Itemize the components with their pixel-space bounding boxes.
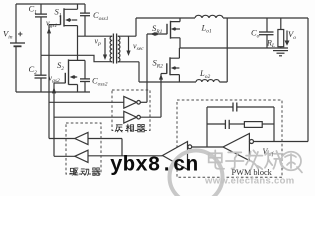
svg-text:vp: vp <box>95 37 102 48</box>
svg-text:Vo: Vo <box>288 29 296 41</box>
svg-text:Lo1: Lo1 <box>201 23 212 35</box>
svg-text:www.elecfans.com: www.elecfans.com <box>204 176 294 187</box>
svg-text:S1: S1 <box>55 7 62 19</box>
svg-text:Lo2: Lo2 <box>199 68 210 80</box>
svg-text:C1: C1 <box>29 4 38 16</box>
svg-text:ybx8.cn: ybx8.cn <box>110 155 198 178</box>
svg-text:Coss2: Coss2 <box>92 76 108 88</box>
svg-text:vsec: vsec <box>133 42 144 53</box>
svg-text:Coss1: Coss1 <box>93 10 109 22</box>
svg-text:Vin: Vin <box>3 29 13 41</box>
svg-text:S2: S2 <box>57 60 64 72</box>
svg-text:RL: RL <box>266 39 275 50</box>
svg-text:vgs1: vgs1 <box>46 19 57 30</box>
svg-text:Co: Co <box>251 28 260 40</box>
svg-text:vgs2: vgs2 <box>49 74 60 85</box>
svg-text:SR2: SR2 <box>153 58 164 70</box>
svg-text:C2: C2 <box>29 64 38 76</box>
